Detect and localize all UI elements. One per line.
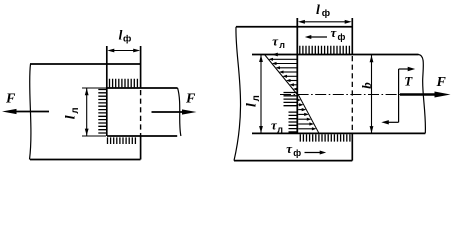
svg-text:л: л	[251, 95, 262, 101]
svg-text:l: l	[245, 103, 260, 107]
overlapping horizontal board	[252, 55, 425, 134]
svg-text:F: F	[5, 92, 16, 107]
right board (overlapping strip)	[107, 88, 181, 136]
dimension l_l (left)	[63, 88, 106, 136]
svg-text:l: l	[63, 115, 78, 119]
svg-text:τ: τ	[286, 141, 293, 156]
force F right arrow	[152, 92, 197, 115]
plywood pad left edge	[106, 46, 108, 136]
shear diagram lower triangle (tau_l pointing right)	[297, 95, 320, 134]
svg-text:F: F	[436, 75, 447, 90]
plate right edge (solid, dashed where hidden)	[351, 18, 353, 161]
dimension l_f (top)	[107, 29, 140, 53]
big plate (vertical board, face view)	[234, 27, 352, 161]
label tau_f bottom with right arrow	[286, 141, 326, 158]
couple T bracket (two opposite force arrows)	[381, 67, 415, 125]
svg-text:ф: ф	[123, 34, 131, 45]
label tau_l bottom	[271, 118, 283, 135]
left board (wide plate, face view)	[30, 64, 141, 160]
glue hatching bottom	[108, 137, 136, 144]
svg-text:л: л	[70, 107, 81, 113]
glue area left edge	[296, 18, 298, 133]
svg-text:F: F	[185, 92, 196, 107]
glue hatching left (lower half comb)	[284, 93, 298, 106]
dimension l_f (top)	[297, 3, 352, 26]
force F left arrow	[2, 92, 49, 115]
label tau_l top with left arrow	[272, 33, 291, 56]
svg-text:l: l	[316, 3, 320, 18]
glue hatching left	[98, 90, 106, 134]
dimension l_l (far left)	[245, 55, 263, 134]
svg-text:T: T	[404, 74, 413, 89]
shear diagram upper triangle (tau_l pointing left)	[265, 55, 298, 95]
svg-text:ф: ф	[322, 8, 330, 19]
plywood pad right edge (solid above/below, dashed where hidden)	[140, 46, 142, 160]
force F arrow (right)	[400, 75, 451, 97]
label tau_f top with left arrow	[305, 25, 346, 42]
svg-text:л: л	[277, 125, 283, 135]
svg-text:л: л	[279, 40, 285, 50]
svg-text:b: b	[359, 82, 374, 89]
svg-text:l: l	[119, 29, 123, 44]
glue hatching top	[300, 46, 350, 54]
dimension b	[359, 55, 374, 133]
svg-text:ф: ф	[338, 32, 346, 42]
svg-text:ф: ф	[293, 148, 301, 158]
glue hatching top	[110, 79, 138, 88]
centre line (dash-dot)	[280, 94, 438, 96]
glue hatching bottom	[300, 134, 350, 141]
svg-text:τ: τ	[272, 33, 279, 48]
